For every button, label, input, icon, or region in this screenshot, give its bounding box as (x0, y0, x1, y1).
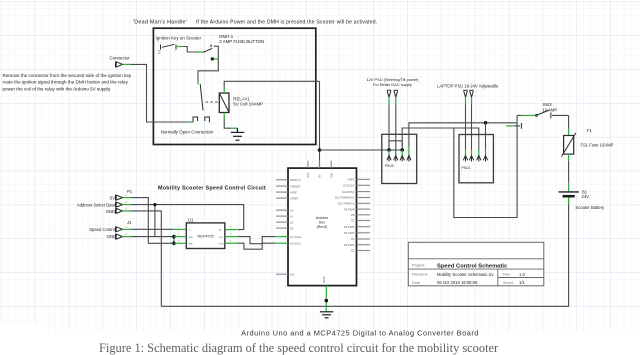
svg-text:'Dead Man's Handle': 'Dead Man's Handle' (133, 19, 187, 25)
svg-text:LAPTOP PSU 19-24V Adjustable: LAPTOP PSU 19-24V Adjustable (437, 83, 499, 88)
svg-text:FSL Fuse 10AMP: FSL Fuse 10AMP (581, 143, 614, 148)
svg-text:D6 PWM: D6 PWM (344, 225, 356, 229)
node: junctions at psu2 pins (387, 148, 404, 152)
wire: switch to fuse (568, 115, 570, 135)
svg-text:Project: Project (412, 263, 425, 268)
switch: ignition key (161, 44, 177, 49)
top pin stubs (308, 161, 331, 169)
title block (408, 242, 544, 285)
svg-text:5V: 5V (110, 195, 115, 200)
module PSU1 (459, 135, 493, 183)
connector: top left external (110, 55, 131, 67)
svg-text:Scooter Battery: Scooter Battery (575, 205, 605, 210)
svg-text:VOUT: VOUT (218, 243, 225, 245)
wire: arduino gnd to ground (325, 286, 327, 312)
svg-text:Mobility Scooter Speed Control: Mobility Scooter Speed Control Circuit (158, 186, 266, 192)
wire: 5V feed to U1 (131, 198, 174, 244)
svg-text:AREF: AREF (290, 190, 298, 194)
svg-text:RESET2: RESET2 (290, 178, 301, 182)
svg-text:D11 PWM/MOSI: D11 PWM/MOSI (335, 196, 355, 200)
svg-text:Figure 1: Schematic diagram of: Figure 1: Schematic diagram of the speed… (99, 341, 499, 355)
wire: laptop psu pin drops (466, 97, 472, 149)
svg-text:Filename: Filename (412, 273, 428, 277)
svg-text:Remove the connector from the: Remove the connector from the secured si… (3, 73, 132, 78)
svg-text:A1: A1 (290, 214, 294, 218)
wire: psu2 internal link bar (389, 141, 402, 150)
node: junction psu1 pin4 branch (484, 121, 488, 125)
svg-text:Arduino Uno and a MCP4725 Digi: Arduino Uno and a MCP4725 Digital to Ana… (241, 329, 479, 338)
svg-text:D12/MISO: D12/MISO (342, 190, 355, 194)
subcircuit box: dead man's handle enclosure (153, 28, 315, 144)
wire: fuse to battery (568, 154, 570, 191)
svg-text:D13/SCK: D13/SCK (343, 184, 354, 188)
wire: arduino 5V supply from relay (319, 81, 321, 168)
svg-text:SDA: SDA (188, 242, 193, 245)
wire: ignition to DMH button (177, 47, 204, 53)
svg-text:J1: J1 (127, 220, 132, 225)
button: DMH-1 (204, 44, 214, 60)
connector pins: laptop PSU feed (463, 90, 473, 97)
svg-text:Arduino: Arduino (316, 216, 328, 220)
svg-text:Uno: Uno (319, 221, 326, 225)
switch SW3 (506, 102, 569, 129)
wire: relay coil bottom to ground (224, 113, 237, 129)
svg-text:D9 PWM: D9 PWM (344, 207, 356, 211)
wire: loop around PSU1 (454, 115, 517, 217)
svg-text:P1: P1 (127, 189, 133, 194)
node: junction dots near U1 left (153, 203, 176, 245)
svg-text:MCP4725: MCP4725 (198, 235, 214, 239)
svg-text:PSU2: PSU2 (385, 164, 394, 168)
wire: address select data run (131, 205, 244, 230)
svg-text:A5 (SCL): A5 (SCL) (290, 242, 301, 246)
svg-text:Rev:: Rev: (503, 273, 511, 277)
wire: connector to NO contact (123, 64, 194, 122)
svg-text:AREF: AREF (347, 178, 355, 182)
node: junction arduino 5V branch (318, 148, 322, 152)
wire: battery negative green stub (568, 198, 570, 205)
svg-text:1/1: 1/1 (519, 280, 525, 285)
svg-text:2 AMP FUSE BUTTON: 2 AMP FUSE BUTTON (219, 39, 264, 44)
connector pins: 12V PSU feed (387, 90, 398, 97)
svg-text:route the ignition signal thro: route the ignition signal through the DM… (3, 80, 129, 85)
svg-text:A2: A2 (290, 220, 294, 224)
svg-text:A4 (SDA): A4 (SDA) (290, 235, 301, 239)
wire: branch to psu1 pin4 (485, 123, 487, 150)
svg-text:N/C: N/C (290, 272, 295, 276)
svg-text:Address Select Data: Address Select Data (77, 202, 116, 207)
svg-text:Date: Date (412, 281, 420, 285)
fuse F1 (562, 128, 614, 157)
node: junction on arduino gnd (325, 299, 329, 303)
wire: link between U1 gnd pins (173, 237, 175, 244)
component: Arduino Uno (Rev3) (275, 161, 370, 286)
svg-text:5V Coil 10AMP: 5V Coil 10AMP (233, 102, 263, 107)
svg-text:VIN: VIN (329, 173, 333, 178)
wire: U1 VOUT zigzag to arduino (238, 243, 275, 249)
svg-text:Connector: Connector (110, 55, 131, 60)
svg-text:D8: D8 (351, 213, 355, 217)
relay RELAY1 (219, 93, 229, 113)
svg-text:If the Arduino Power and the D: If the Arduino Power and the DMH is pres… (196, 19, 377, 25)
IC U1 MCP4725 (174, 218, 238, 249)
wire: 12V psu pin drops (389, 97, 396, 155)
wire: bottom ground rail (161, 197, 568, 306)
svg-text:5V: 5V (318, 174, 322, 178)
battery B1 (559, 189, 606, 209)
svg-text:GND: GND (106, 209, 115, 214)
wire: address select branch down (154, 205, 156, 237)
svg-text:ARESET: ARESET (290, 184, 301, 188)
svg-text:24V: 24V (582, 194, 590, 199)
svg-text:D2: D2 (351, 249, 355, 253)
wire: 5V rail to PSU2 (320, 149, 403, 151)
svg-text:A3: A3 (290, 226, 294, 230)
wire: psu2 pin4 to switch loop (409, 123, 517, 147)
svg-text:F1: F1 (587, 128, 593, 133)
wire: J1 gnd to U1 (131, 236, 174, 238)
svg-text:06 Oct 2016 19:08:06: 06 Oct 2016 19:08:06 (437, 280, 478, 285)
wire: relay coil top to output (224, 81, 319, 93)
wire: speed control to U1 (131, 228, 174, 230)
note: remove connector instruction (3, 73, 132, 91)
ground: arduino (320, 312, 333, 318)
svg-text:U1: U1 (188, 218, 194, 223)
connector P1 (5V / Address Select Data / GND) (77, 189, 133, 214)
connector J1 (Speed Control / GND) (89, 220, 132, 239)
wire: U1 SCL zigzag to arduino (238, 237, 275, 244)
svg-text:3V3: 3V3 (306, 172, 310, 178)
svg-text:1.0: 1.0 (519, 272, 525, 277)
ground: relay (231, 128, 244, 140)
svg-text:Normally Open Connection: Normally Open Connection (161, 130, 214, 135)
svg-text:SW3: SW3 (543, 102, 553, 107)
svg-text:For Better DAC supply: For Better DAC supply (373, 82, 412, 87)
right pin stubs (357, 179, 371, 250)
svg-text:D10 PWM/SS: D10 PWM/SS (338, 202, 355, 206)
wire: gnd down to bottom rail (131, 211, 161, 306)
svg-text:(Rev3): (Rev3) (317, 225, 328, 229)
switch: relay NO contact lever (193, 84, 218, 122)
wire: unused throw stub (506, 125, 514, 127)
svg-text:A0: A0 (290, 208, 294, 212)
svg-text:NC: NC (158, 53, 162, 55)
svg-text:Mobility Scooter Schematic.Sv: Mobility Scooter Schematic.Sv (437, 272, 494, 277)
svg-text:D5 PWM: D5 PWM (344, 231, 356, 235)
svg-text:IOREF: IOREF (290, 196, 299, 200)
svg-text:GND: GND (107, 234, 116, 239)
svg-text:Ignition Key on Scooter: Ignition Key on Scooter (156, 36, 202, 41)
svg-text:power the coil of the relay wi: power the coil of the relay with the Ard… (3, 86, 111, 91)
svg-text:D3 PWM: D3 PWM (344, 243, 356, 247)
svg-text:Speed Control: Speed Control (89, 227, 116, 232)
svg-text:PSU1: PSU1 (462, 166, 471, 170)
note: ignition contact marks (158, 51, 176, 56)
svg-text:GND: GND (188, 237, 193, 239)
svg-text:Sheet:: Sheet: (503, 281, 514, 285)
note: connector pin numbers (126, 195, 128, 236)
svg-text:D7: D7 (351, 219, 355, 223)
wire: psu2 pin3 to psu1 pin3 (402, 128, 479, 150)
svg-text:D4: D4 (351, 237, 355, 241)
svg-text:GND: GND (322, 276, 326, 284)
svg-text:Speed Control Schematic: Speed Control Schematic (437, 263, 508, 269)
left pin stubs (276, 180, 288, 274)
wire: DMH button to NO switch (198, 46, 218, 84)
module PSU2 (382, 134, 417, 183)
